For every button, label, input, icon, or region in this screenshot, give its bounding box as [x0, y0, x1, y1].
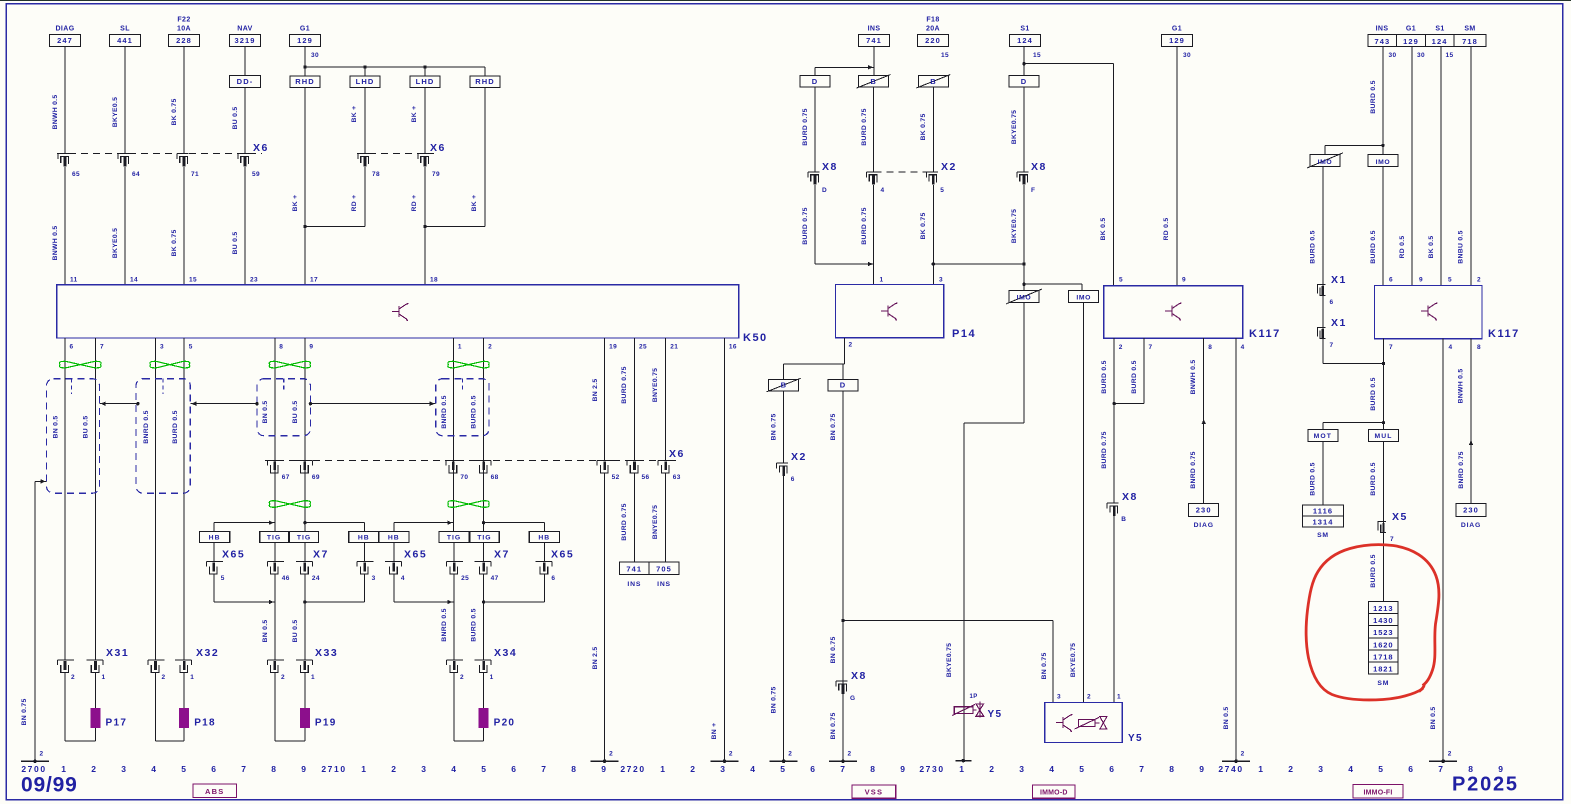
twisted pair symbol [269, 501, 310, 508]
svg-text:RHD: RHD [475, 77, 495, 86]
svg-text:DIAG: DIAG [1194, 522, 1214, 529]
svg-text:G1: G1 [1406, 26, 1416, 33]
svg-text:2: 2 [1119, 344, 1123, 351]
wire K50 pin1 down [452, 338, 454, 531]
wire MOT to SM 1116/1314 [1322, 442, 1324, 506]
svg-text:17: 17 [310, 277, 318, 284]
svg-text:BURD 0.5: BURD 0.5 [1370, 462, 1377, 495]
connector 705 INS [649, 562, 679, 574]
svg-text:2: 2 [1448, 751, 1452, 758]
wire SL 441 to X6 pin 64 [124, 47, 126, 154]
svg-text:7: 7 [541, 764, 547, 774]
X6 connector dashed line (left run) [57, 153, 262, 155]
svg-text:BURD 0.75: BURD 0.75 [802, 207, 809, 244]
svg-text:P18: P18 [194, 718, 216, 729]
svg-text:1620: 1620 [1373, 640, 1393, 649]
svg-text:X2: X2 [941, 161, 957, 173]
svg-text:K117: K117 [1249, 328, 1281, 340]
speaker/load P19 [274, 673, 276, 742]
svg-text:X34: X34 [494, 647, 517, 659]
svg-text:B: B [870, 77, 876, 86]
svg-text:2710: 2710 [321, 764, 346, 774]
svg-text:23: 23 [250, 277, 258, 284]
svg-text:15: 15 [1033, 52, 1041, 59]
X8 pin F [1017, 171, 1029, 173]
connector 741 INS [620, 562, 649, 574]
svg-text:1P: 1P [970, 694, 978, 700]
svg-text:HB: HB [358, 535, 370, 542]
svg-text:SM: SM [1377, 680, 1389, 687]
svg-text:2: 2 [1477, 277, 1481, 284]
svg-text:70: 70 [460, 474, 468, 481]
X8 pin B [1107, 502, 1119, 504]
wire S1/D to X8 pin F [1023, 87, 1025, 172]
svg-text:15: 15 [941, 52, 949, 59]
svg-text:2: 2 [849, 342, 853, 349]
svg-text:INS: INS [627, 581, 641, 588]
svg-text:X1: X1 [1331, 274, 1347, 286]
svg-text:S1: S1 [1435, 26, 1444, 33]
svg-text:BKYE0.5: BKYE0.5 [112, 97, 119, 127]
shield drain interconnect wires [100, 403, 138, 405]
svg-text:BN 0.75: BN 0.75 [830, 636, 837, 663]
LHD option box 1 [364, 67, 366, 76]
svg-text:X8: X8 [1122, 491, 1138, 503]
svg-text:BK 0.75: BK 0.75 [171, 229, 178, 256]
svg-text:56: 56 [642, 474, 650, 481]
svg-text:4: 4 [151, 764, 157, 774]
svg-text:X6: X6 [430, 142, 446, 154]
svg-text:Y5: Y5 [988, 709, 1003, 720]
svg-text:BN +: BN + [711, 723, 718, 740]
svg-text:BKYE0.75: BKYE0.75 [1070, 643, 1077, 678]
K117R pin4 wire to ground [1442, 339, 1444, 762]
X6 pin 79 [418, 153, 430, 155]
svg-text:BURD 0.5: BURD 0.5 [471, 608, 478, 641]
svg-text:2: 2 [391, 764, 397, 774]
system box IMMO-FI [1353, 785, 1403, 799]
svg-text:2: 2 [488, 344, 492, 351]
option box B slashed 2 [918, 76, 948, 88]
svg-text:7: 7 [1390, 536, 1394, 543]
hand-drawn red circle annotation [1306, 545, 1439, 700]
relay P14 [835, 285, 943, 338]
svg-text:30: 30 [311, 52, 319, 59]
svg-text:8: 8 [1477, 344, 1481, 351]
svg-text:67: 67 [282, 474, 290, 481]
svg-text:2: 2 [281, 674, 285, 681]
svg-text:BK 0.5: BK 0.5 [1428, 236, 1435, 259]
svg-text:2: 2 [690, 764, 696, 774]
wire K50 pin9 down [304, 338, 306, 531]
svg-text:129: 129 [297, 36, 313, 45]
svg-text:2: 2 [71, 674, 75, 681]
K117L pins2+7 merge [1113, 338, 1115, 403]
svg-text:2: 2 [848, 751, 852, 758]
svg-text:11: 11 [70, 277, 78, 284]
wire RHD2 down [484, 88, 486, 227]
svg-text:P17: P17 [106, 718, 128, 729]
wire IMO-slash down to Y5 solenoid [1023, 302, 1025, 423]
wire X6-59 to K50 pin 23 [244, 167, 246, 285]
svg-text:4: 4 [401, 575, 405, 582]
ground G2718 [591, 760, 619, 762]
wire LHD2 through X6 pin 79 [424, 88, 426, 154]
wire IMO down to Y5 pin2 [1083, 302, 1085, 702]
svg-text:IMO: IMO [1376, 159, 1391, 166]
pin 4 below HB4 [393, 542, 395, 561]
RHD option box 1 [290, 76, 320, 88]
svg-text:52: 52 [612, 474, 620, 481]
wire K50 pin3 down [155, 338, 157, 660]
svg-text:6: 6 [1330, 299, 1334, 306]
svg-text:30: 30 [1183, 52, 1191, 59]
svg-text:59: 59 [252, 171, 260, 178]
svg-text:F: F [1031, 187, 1035, 194]
svg-text:2: 2 [40, 751, 44, 758]
wire DIAG 247 to X6 pin 65 [64, 47, 66, 154]
svg-text:X5: X5 [1392, 511, 1408, 523]
wire F22 228 to X6 pin 71 [183, 47, 185, 154]
svg-text:1: 1 [880, 277, 884, 284]
control unit K50 [57, 285, 739, 338]
svg-text:9: 9 [301, 764, 307, 774]
svg-text:2: 2 [1288, 764, 1294, 774]
svg-text:124: 124 [1017, 36, 1033, 45]
wire K50 pin6 down [64, 338, 66, 660]
speaker/load P20 [453, 673, 455, 742]
shielded cable 2 (dashed) [136, 379, 190, 494]
connector 230 DIAG right [1456, 504, 1486, 517]
wire to K50 pin 18 [424, 227, 426, 285]
system box VSS [852, 785, 896, 798]
branch S1 rail to K117 pin5 [1024, 63, 1113, 65]
svg-text:RD +: RD + [411, 195, 418, 212]
svg-text:SL: SL [120, 26, 130, 33]
svg-text:9: 9 [1498, 764, 1504, 774]
connector block 1213..1821 SM [1369, 602, 1399, 614]
svg-text:BK 0.5: BK 0.5 [1100, 218, 1107, 241]
svg-text:6: 6 [1389, 277, 1393, 284]
svg-text:BURD 0.75: BURD 0.75 [802, 108, 809, 145]
svg-text:DIAG: DIAG [55, 26, 74, 33]
svg-text:718: 718 [1462, 37, 1478, 46]
wire to X2 pin 6 [783, 391, 785, 463]
shield drain to ground wire [35, 480, 47, 482]
HB / TIG connector boxes [200, 531, 230, 542]
option box MUL [1369, 430, 1399, 442]
svg-text:RD 0.5: RD 0.5 [1163, 218, 1170, 241]
svg-text:BURD 0.75: BURD 0.75 [621, 366, 628, 403]
svg-text:5: 5 [1119, 277, 1123, 284]
svg-text:3: 3 [720, 764, 726, 774]
svg-text:BN 0.5: BN 0.5 [1223, 707, 1230, 730]
svg-text:BURD 0.75: BURD 0.75 [861, 108, 868, 145]
svg-text:2730: 2730 [919, 764, 944, 774]
svg-text:78: 78 [372, 171, 380, 178]
option box D 2 [1009, 76, 1039, 88]
svg-text:8: 8 [1208, 344, 1212, 351]
svg-text:BN 0.5: BN 0.5 [262, 620, 269, 643]
svg-text:1: 1 [102, 674, 106, 681]
connector 230 DIAG left [1189, 504, 1219, 517]
X2 pin 5 [926, 171, 938, 173]
X2 pin 6 [777, 462, 789, 464]
svg-text:8: 8 [271, 764, 277, 774]
ground G2700 [21, 760, 49, 762]
wire G1 right to K117R pin9 [1411, 47, 1413, 286]
svg-text:B: B [930, 77, 936, 86]
svg-text:247: 247 [57, 36, 73, 45]
svg-text:BURD 0.5: BURD 0.5 [1370, 377, 1377, 410]
svg-text:BURD 0.75: BURD 0.75 [861, 207, 868, 244]
svg-text:P20: P20 [494, 718, 516, 729]
branch to Y5 pin3 [843, 620, 1053, 622]
svg-text:F22: F22 [177, 17, 190, 24]
svg-text:2: 2 [1241, 751, 1245, 758]
svg-text:BNYE0.75: BNYE0.75 [652, 368, 659, 403]
X1 pin 7 [1317, 328, 1325, 337]
wire X6-64 to K50 pin 14 [124, 167, 126, 285]
svg-text:X65: X65 [404, 549, 427, 561]
svg-text:S1: S1 [1020, 26, 1029, 33]
X6 dashed line (second run) [357, 153, 434, 155]
X1 pin 6 [1317, 285, 1325, 294]
svg-text:RHD: RHD [295, 77, 315, 86]
svg-text:D: D [1021, 77, 1028, 86]
svg-text:4: 4 [1449, 344, 1453, 351]
svg-text:09/99: 09/99 [21, 774, 78, 797]
svg-text:BK 0.75: BK 0.75 [920, 113, 927, 140]
svg-text:TIG: TIG [267, 535, 281, 542]
svg-text:BU 0.5: BU 0.5 [292, 401, 299, 424]
wire X6-71 to K50 pin 15 [183, 167, 185, 285]
svg-text:P14: P14 [952, 328, 976, 340]
svg-text:15: 15 [1446, 52, 1454, 59]
svg-text:K117: K117 [1488, 328, 1520, 340]
svg-text:7: 7 [100, 344, 104, 351]
pin 47 below TIG6 [483, 542, 485, 561]
svg-text:1: 1 [1258, 764, 1264, 774]
X6 pin 65 [58, 153, 70, 155]
svg-text:IMO: IMO [1318, 159, 1333, 166]
K117L pin4 wire to ground [1235, 338, 1237, 761]
svg-text:D: D [840, 381, 847, 390]
svg-text:20A: 20A [926, 26, 940, 33]
svg-text:BNRD 0.5: BNRD 0.5 [143, 410, 150, 443]
svg-text:3: 3 [1057, 694, 1061, 701]
svg-text:9: 9 [309, 344, 313, 351]
svg-text:7: 7 [840, 764, 846, 774]
pin 6 below HB7 [543, 542, 545, 561]
speaker/load P17 [64, 673, 66, 742]
svg-text:64: 64 [132, 171, 140, 178]
pin 46 below TIG1 [274, 542, 276, 561]
HB box feeds at y522.7 [214, 522, 275, 524]
svg-text:1: 1 [1117, 694, 1121, 701]
X6 pin 67 [267, 459, 284, 461]
svg-text:HB: HB [538, 535, 550, 542]
X6 pin 68 [475, 459, 492, 461]
svg-text:2740: 2740 [1218, 764, 1243, 774]
wire S1 to D box [1023, 47, 1025, 76]
svg-text:4: 4 [750, 764, 756, 774]
svg-text:63: 63 [673, 474, 681, 481]
svg-text:2: 2 [989, 764, 995, 774]
svg-text:65: 65 [72, 171, 80, 178]
svg-text:9: 9 [1419, 277, 1423, 284]
svg-text:7: 7 [241, 764, 247, 774]
svg-text:X32: X32 [196, 647, 219, 659]
option box MOT [1308, 430, 1338, 442]
svg-text:47: 47 [491, 575, 499, 582]
svg-text:TIG: TIG [477, 535, 491, 542]
twisted pair symbol [150, 361, 190, 368]
option box D (below P14) [828, 379, 858, 391]
junction LHD2/RHD2 [425, 226, 485, 228]
svg-text:BN 0.75: BN 0.75 [1041, 652, 1048, 679]
svg-text:BNWH 0.5: BNWH 0.5 [1458, 369, 1465, 404]
option box D [800, 76, 830, 88]
svg-text:ABS: ABS [205, 787, 224, 796]
wire F18 through B box to X2 pin 5 [932, 87, 934, 172]
wire TIG pin25 down to X34 [453, 574, 455, 660]
svg-text:5: 5 [1448, 277, 1452, 284]
X2 dashed line [875, 171, 927, 173]
svg-text:8: 8 [1468, 764, 1474, 774]
svg-text:5: 5 [780, 764, 786, 774]
svg-text:BN 0.75: BN 0.75 [830, 413, 837, 440]
wire K50 pin8 down [274, 338, 276, 531]
svg-text:7: 7 [1149, 344, 1153, 351]
option box IMO slashed right [1310, 155, 1340, 167]
svg-text:7: 7 [1139, 764, 1145, 774]
svg-text:BN 0.5: BN 0.5 [262, 401, 269, 424]
svg-text:BN 0.5: BN 0.5 [53, 416, 60, 439]
svg-text:X8: X8 [1031, 161, 1047, 173]
wire K50 pin16 to ground [723, 338, 725, 761]
svg-text:HB: HB [209, 535, 221, 542]
X6 pin 64 [118, 153, 130, 155]
X6 pin 63 [658, 459, 675, 461]
svg-text:19: 19 [609, 344, 617, 351]
pin 3 below HB3 [364, 542, 366, 561]
svg-text:9: 9 [1199, 764, 1205, 774]
svg-text:X1: X1 [1331, 317, 1347, 329]
svg-text:BNRD 0.75: BNRD 0.75 [1190, 451, 1197, 488]
svg-text:2: 2 [788, 751, 792, 758]
svg-text:21: 21 [670, 344, 678, 351]
svg-text:BURD 0.75: BURD 0.75 [621, 503, 628, 540]
svg-text:BURD 0.5: BURD 0.5 [1310, 230, 1317, 263]
svg-text:6: 6 [1408, 764, 1414, 774]
control unit K117 right [1375, 286, 1482, 339]
svg-text:D: D [812, 77, 819, 86]
wire NAV 3219 to X6 pin 59 [244, 88, 246, 154]
wire SM718 to K117R pin2 [1470, 47, 1472, 286]
svg-text:G1: G1 [1172, 26, 1182, 33]
svg-text:14: 14 [130, 277, 138, 284]
svg-text:BN 0.75: BN 0.75 [21, 698, 28, 725]
X6 pin 78 [358, 153, 370, 155]
svg-text:BN 2.5: BN 2.5 [592, 647, 599, 670]
wire TIG pin46 down to X33 [274, 574, 276, 660]
wire K50 pin2 down [483, 338, 485, 531]
svg-text:8: 8 [1169, 764, 1175, 774]
svg-text:INS: INS [657, 581, 671, 588]
wire K50 pin25 to INS 741 [634, 338, 636, 460]
svg-text:9: 9 [900, 764, 906, 774]
svg-text:BNWH 0.5: BNWH 0.5 [52, 226, 59, 261]
system box IMMO-D [1033, 785, 1076, 798]
svg-text:BU 0.5: BU 0.5 [83, 416, 90, 439]
svg-text:3: 3 [421, 764, 427, 774]
svg-text:IMMO-FI: IMMO-FI [1363, 790, 1392, 797]
svg-text:9: 9 [1182, 277, 1186, 284]
X5 pin 7 [1378, 522, 1386, 531]
svg-text:SM: SM [1464, 26, 1475, 33]
wire G1 middle to K117 pin9 [1176, 47, 1178, 286]
svg-text:HB: HB [388, 535, 400, 542]
svg-text:4: 4 [451, 764, 457, 774]
svg-text:5: 5 [1079, 764, 1085, 774]
svg-text:K50: K50 [743, 332, 768, 344]
wire INS743 to IMO boxes [1382, 47, 1384, 155]
svg-text:D: D [822, 187, 827, 194]
option box IMO right [1368, 155, 1398, 167]
svg-text:B: B [781, 381, 787, 390]
svg-text:4: 4 [881, 187, 885, 194]
svg-text:1523: 1523 [1373, 628, 1393, 637]
svg-text:5: 5 [481, 764, 487, 774]
svg-text:6: 6 [791, 476, 795, 483]
wire IMO-slash through X1 pins [1322, 167, 1324, 364]
svg-text:2700: 2700 [21, 764, 46, 774]
svg-text:BNRD 0.5: BNRD 0.5 [441, 395, 448, 428]
wire IMO to K117R pin6 [1382, 167, 1384, 286]
svg-text:18: 18 [430, 277, 438, 284]
LHD option box 2 [424, 67, 426, 76]
svg-text:1213: 1213 [1373, 604, 1393, 613]
svg-text:6: 6 [511, 764, 517, 774]
svg-text:DIAG: DIAG [1461, 522, 1481, 529]
option box B slashed (below P14) [769, 379, 799, 391]
svg-text:3: 3 [1019, 764, 1025, 774]
svg-text:69: 69 [312, 474, 320, 481]
svg-text:741: 741 [866, 36, 882, 45]
ground for Y5 wire [955, 760, 971, 762]
svg-text:1430: 1430 [1373, 616, 1393, 625]
svg-text:X6: X6 [669, 448, 685, 460]
svg-text:129: 129 [1169, 36, 1185, 45]
svg-text:BNRD 0.5: BNRD 0.5 [441, 608, 448, 641]
svg-text:1: 1 [311, 674, 315, 681]
svg-text:6: 6 [211, 764, 217, 774]
svg-text:15: 15 [189, 277, 197, 284]
svg-text:16: 16 [729, 344, 737, 351]
svg-text:230: 230 [1196, 506, 1212, 515]
svg-text:6: 6 [551, 575, 555, 582]
svg-text:VSS: VSS [865, 788, 884, 797]
svg-text:LHD: LHD [416, 77, 435, 86]
svg-text:BN 0.75: BN 0.75 [771, 413, 778, 440]
wire INS741 junction to D box [873, 47, 875, 76]
svg-text:3: 3 [939, 277, 943, 284]
svg-text:5: 5 [189, 344, 193, 351]
svg-text:24: 24 [312, 575, 320, 582]
svg-text:30: 30 [1389, 52, 1397, 59]
svg-text:G1: G1 [300, 26, 310, 33]
